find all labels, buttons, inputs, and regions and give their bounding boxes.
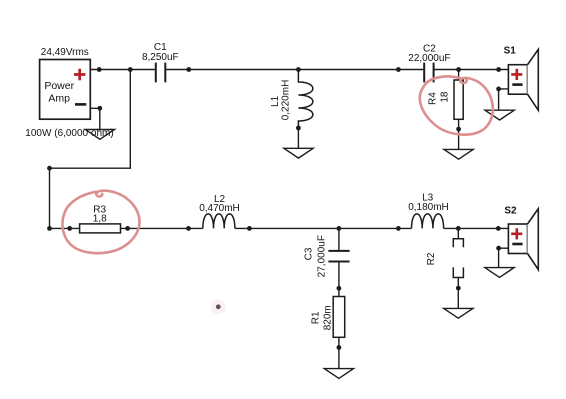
ground: below S1 [485,110,514,120]
wire: L3 to speaker S2 [444,227,509,229]
svg-text:0,220mH: 0,220mH [280,80,291,121]
power amp + terminal mark [74,69,85,80]
wire: bottom rail start to R3 [50,227,80,229]
node: dot at L1 tap [296,67,301,72]
node: junction dot at amp + output [97,67,102,72]
wire: R2 to ground [457,278,459,309]
node: dot below R1 [337,345,342,350]
wire: S1 - terminal to ground [499,89,509,110]
power amp U1 box [40,60,91,120]
inductor L3 [412,214,444,228]
annotation: red circle around R3 [62,191,139,253]
svg-text:820m: 820m [323,305,334,330]
node: dot at amp - corner [97,106,102,111]
node: dot below R4 [456,127,461,132]
svg-text:R1: R1 [311,311,322,324]
wire: L1 to ground [297,128,299,148]
resistor R3 [80,224,121,233]
resistor R2 (open body) [457,228,459,238]
node: dot at bottom rail start [47,226,52,231]
capacitor C3 (shunt) [338,228,340,251]
ground: below power amp [85,130,114,140]
ground: below R4 [444,149,473,159]
wire: link from top rail down and across to bottom rail [50,70,131,229]
node: dot at S2 - pin [496,246,501,251]
node: dot below R2 [456,286,461,291]
svg-text:S1: S1 [504,45,517,56]
wire: R4 to ground [458,119,460,149]
node: dot at L2 right pin [247,226,252,231]
node: dot between C3 and R1 [337,286,342,291]
wire: C1 to C2 along top rail [165,69,424,71]
annotation: small red dot mark [211,299,226,314]
svg-text:0,470mH: 0,470mH [199,203,240,214]
node: dot at S1 + pin [496,67,501,72]
svg-text:1,8: 1,8 [93,214,107,225]
svg-text:S2: S2 [504,206,517,217]
ground: below R1 [324,369,353,379]
wire: C2 to speaker S1 [434,69,509,71]
svg-text:24,49Vrms: 24,49Vrms [41,47,89,58]
wire: L2 to C3 tap to L3 [235,227,412,229]
node: dot at R3 right pin [125,226,130,231]
node: dot at link corner [47,166,52,171]
svg-text:8,250uF: 8,250uF [142,52,179,63]
ground: below L1 [284,148,313,158]
capacitor C2 [424,63,433,83]
node: dot below L1 [296,126,301,131]
inductor L1 (shunt to ground) [298,70,312,129]
wire: R3 to L2 [121,227,203,229]
svg-text:R4: R4 [428,92,439,105]
svg-text:22,000uF: 22,000uF [408,53,450,64]
power amp - terminal mark [75,103,86,106]
node: dot at R2 tap [456,226,461,231]
capacitor C1 [156,63,166,83]
svg-text:0,180mH: 0,180mH [408,202,449,213]
node: dot before C2 [396,67,401,72]
wire: R1 to ground [338,337,340,368]
node: dot at L3 left pin [396,226,401,231]
ground: below R2 [444,308,473,318]
wire: S2 - terminal to ground [499,248,509,267]
node: dot at C3 tap [337,226,342,231]
ground: below S2 [485,268,514,278]
svg-text:L1: L1 [270,95,281,107]
wire: power amp + output to C1 [90,69,156,71]
node: dot at S1 - pin [496,87,501,92]
svg-text:Power: Power [44,80,74,92]
svg-text:Amp: Amp [48,93,70,105]
svg-text:27,000uF: 27,000uF [317,235,328,277]
resistor R4 [458,70,460,81]
node: dot at L2 left pin [186,226,191,231]
node: dot at S2 + pin [496,226,501,231]
node: dot at R4 tap [456,67,461,72]
node: junction dot at top feed to bottom row [128,67,133,72]
annotation: red circle around R4 [420,76,493,134]
svg-text:18: 18 [440,91,451,103]
svg-text:R2: R2 [426,252,437,265]
resistor R1 [333,297,345,338]
wire: power amp - terminal to ground [90,108,100,129]
node: dot after C1 [186,67,191,72]
node: dot at R3 left pin [67,226,72,231]
svg-text:C3: C3 [304,247,315,260]
inductor L2 [203,214,235,228]
